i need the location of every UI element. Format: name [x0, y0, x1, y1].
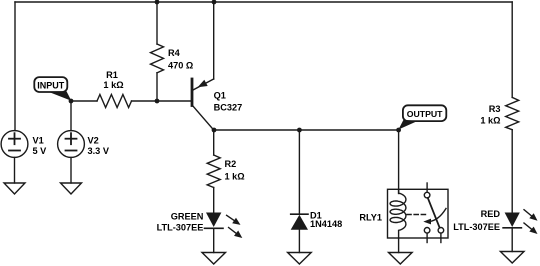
resistor R4 — [151, 44, 164, 73]
label R2 1k — [225, 159, 245, 182]
wire base — [157, 100, 191, 102]
relay pin stub NC — [426, 233, 428, 242]
relay actuation arrow — [430, 209, 447, 222]
relay switch arm — [428, 198, 440, 228]
wire V2 up — [70, 101, 72, 131]
label V2 3.3V — [88, 136, 110, 156]
svg-text:OUTPUT: OUTPUT — [407, 109, 443, 119]
wire R2 to LED — [213, 188, 215, 213]
wire V1 to ground — [14, 157, 16, 183]
node R4 base junction — [155, 99, 160, 104]
wire LED red to ground — [511, 228, 513, 252]
node output junction — [396, 128, 401, 133]
svg-text:V2: V2 — [88, 136, 99, 146]
relay pin stub NO — [440, 233, 442, 242]
svg-text:GREEN: GREEN — [171, 211, 204, 221]
svg-text:1 kΩ: 1 kΩ — [225, 172, 245, 182]
node D1 top — [297, 128, 302, 133]
label V1 5V — [33, 136, 48, 156]
ground under relay — [389, 253, 413, 265]
wire collector to R2 — [213, 130, 215, 155]
resistor R3 — [506, 97, 519, 129]
resistor R2 — [207, 155, 220, 188]
wire R3 to LED — [511, 130, 513, 213]
svg-text:INPUT: INPUT — [37, 81, 65, 91]
node input junction — [69, 99, 74, 104]
label Q1 BC327 — [214, 90, 243, 112]
relay RLY1 — [388, 183, 449, 243]
svg-text:R4: R4 — [168, 48, 181, 58]
relay coil — [390, 189, 406, 238]
relay contact NC — [424, 228, 430, 234]
node R4 top — [155, 0, 160, 4]
label R4 470 — [168, 48, 193, 71]
wire top rail to R3 — [511, 2, 513, 97]
wire relay coil to ground — [398, 238, 400, 253]
svg-text:1N4148: 1N4148 — [310, 219, 342, 229]
label GREEN LTL-307EE — [157, 211, 204, 232]
wire V2 to ground — [70, 157, 72, 183]
wire to D1 — [298, 130, 300, 214]
ground under D1 — [288, 253, 312, 265]
svg-text:RLY1: RLY1 — [359, 213, 382, 223]
wire collector rail — [214, 129, 399, 131]
svg-text:LTL-307EE: LTL-307EE — [157, 223, 204, 233]
svg-text:470 Ω: 470 Ω — [168, 61, 193, 71]
svg-text:R1: R1 — [106, 70, 118, 80]
node collector — [212, 128, 217, 133]
relay contact common — [424, 192, 430, 198]
svg-text:RED: RED — [481, 209, 501, 219]
label D1 1N4148 — [310, 210, 342, 229]
resistor R1 — [97, 95, 132, 108]
source V1 — [1, 131, 28, 158]
wire left rail — [14, 2, 16, 131]
label RED LTL-307EE — [453, 209, 500, 232]
wire emitter to top rail — [213, 2, 215, 79]
wire top rail to R4 — [156, 2, 158, 44]
label R1 1k — [103, 70, 123, 90]
svg-text:5 V: 5 V — [33, 146, 48, 156]
flag OUTPUT — [399, 105, 447, 129]
wire LED green to ground — [213, 228, 215, 252]
relay common pin stub — [426, 183, 428, 192]
wire top rail — [15, 1, 512, 3]
svg-text:R2: R2 — [225, 159, 237, 169]
ground under V1 — [4, 183, 25, 194]
ground under green LED — [202, 253, 226, 265]
relay actuation dashed link — [407, 214, 428, 216]
relay body box — [388, 189, 449, 238]
svg-text:1 kΩ: 1 kΩ — [103, 80, 123, 90]
svg-text:R3: R3 — [489, 104, 501, 114]
flag INPUT — [34, 77, 71, 101]
label R3 1k — [480, 104, 500, 126]
wire input node to R1 — [71, 100, 97, 102]
wire D1 to ground — [298, 230, 300, 253]
svg-text:Q1: Q1 — [214, 90, 226, 100]
LED red — [503, 210, 537, 234]
diode D1 — [291, 214, 308, 230]
svg-text:V1: V1 — [33, 136, 44, 146]
wire R4 to base node — [156, 73, 158, 101]
svg-text:1 kΩ: 1 kΩ — [480, 116, 500, 126]
transistor Q1 — [192, 79, 214, 130]
node emitter top — [212, 0, 217, 4]
svg-text:BC327: BC327 — [214, 103, 243, 113]
svg-text:LTL-307EE: LTL-307EE — [453, 222, 500, 232]
wire output to relay — [398, 130, 400, 194]
svg-text:3.3 V: 3.3 V — [88, 146, 110, 156]
relay contact NO — [438, 228, 444, 234]
wire R1 to base node — [132, 100, 158, 102]
source V2 — [58, 131, 85, 158]
ground under red LED — [500, 252, 524, 264]
LED green — [205, 213, 243, 239]
ground under V2 — [61, 183, 82, 194]
